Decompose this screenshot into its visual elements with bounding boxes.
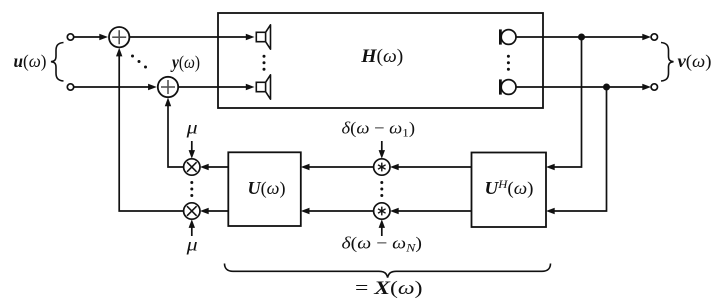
- svg-text:H(ω): H(ω): [360, 46, 403, 67]
- input terminal 1: [67, 34, 73, 40]
- microphone 1: [499, 29, 516, 44]
- arrow mu into multiplier 1: [189, 141, 195, 159]
- feedback wire from bottom junction to U^H box: [546, 87, 607, 214]
- arrow mu into multiplier 2: [189, 219, 195, 236]
- microphone 2: [499, 79, 516, 94]
- wire U^H to conv node 1: [390, 164, 472, 170]
- wire U box to multiplier 1: [200, 164, 228, 170]
- dots between adders: [131, 55, 147, 69]
- loudspeaker 1: [256, 25, 270, 49]
- input terminal 2: [67, 84, 73, 90]
- output terminal 1: [651, 34, 657, 40]
- conv node (circled asterisk) bottom: [374, 203, 390, 219]
- svg-text:μ: μ: [185, 118, 197, 138]
- multiplier (circled times) bottom: [184, 203, 200, 219]
- wire multiplier2 to adder1: [116, 48, 184, 211]
- wire adder2 to loudspeaker2: [178, 84, 254, 90]
- arrow deltaN into conv node 2: [379, 219, 385, 236]
- arrow delta1 into conv node 1: [379, 141, 385, 159]
- dots between conv nodes: [380, 181, 383, 197]
- wire conv node 1 to U box: [301, 164, 374, 170]
- svg-text:v(ω): v(ω): [678, 51, 712, 72]
- wire U^H to conv node 2: [390, 208, 472, 214]
- svg-text:U(ω): U(ω): [248, 178, 286, 199]
- conv node (circled asterisk) top: [374, 159, 390, 175]
- dots between loudspeakers: [263, 55, 266, 71]
- wire conv node 2 to U box: [301, 208, 374, 214]
- junction node bottom: [603, 84, 610, 91]
- right output brace: [661, 43, 674, 82]
- wire terminal1 to adder1: [74, 34, 108, 40]
- box H(omega): [218, 13, 543, 108]
- junction node top: [578, 34, 585, 41]
- left input brace: [51, 43, 64, 82]
- wire adder1 to loudspeaker1: [130, 34, 255, 40]
- wire U box to multiplier 2: [200, 208, 228, 214]
- wire multiplier1 to adder2: [165, 98, 184, 168]
- svg-text:y(ω): y(ω): [170, 52, 200, 73]
- loudspeaker 2: [256, 75, 270, 99]
- dots between multipliers: [190, 181, 193, 197]
- box U(omega): [228, 152, 300, 226]
- svg-text:= X(ω): = X(ω): [355, 278, 423, 299]
- underbrace for X(omega): [225, 264, 551, 278]
- output terminal 2: [651, 84, 657, 90]
- wire mic2 to output terminal 2: [516, 84, 651, 90]
- dots between microphones: [507, 55, 510, 71]
- wire terminal2 to adder2: [74, 84, 157, 90]
- feedback wire from top junction to U^H box: [546, 37, 582, 170]
- adder U+2295 top: [109, 27, 129, 47]
- wire mic1 to output terminal 1: [516, 34, 651, 40]
- multiplier (circled times) top: [184, 159, 200, 175]
- box U^H(omega): [472, 153, 547, 228]
- svg-text:UH(ω): UH(ω): [485, 177, 534, 199]
- svg-text:u(ω): u(ω): [14, 51, 47, 72]
- svg-text:μ: μ: [185, 235, 197, 255]
- adder U+2295 bottom: [158, 77, 178, 97]
